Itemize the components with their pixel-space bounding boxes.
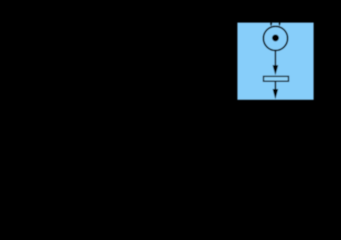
arc place to transition <box>274 50 276 66</box>
token <box>272 34 279 41</box>
arrowhead tip of incoming arc (right) <box>278 21 281 26</box>
arc out of transition <box>274 82 276 90</box>
transition T <box>264 76 289 81</box>
place P with token <box>263 26 287 50</box>
arrowhead tip of incoming arc (left) <box>270 21 273 26</box>
highlight box <box>237 23 313 100</box>
arrowhead out <box>273 89 279 99</box>
arrowhead into transition <box>273 65 279 75</box>
